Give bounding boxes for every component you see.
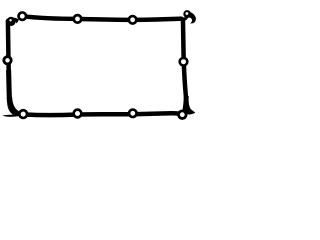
bolt hole bottom-left — [18, 109, 28, 119]
bolt hole bottom-right — [128, 108, 138, 118]
top-right scroll ornament — [183, 10, 191, 18]
bottom-left corner thick curve — [9, 97, 17, 114]
bolt hole top-right — [128, 15, 138, 25]
bolt hole top-left — [17, 11, 27, 21]
bolt hole bottom-middle — [72, 108, 82, 118]
bottom-right corner and pointed tail — [182, 96, 195, 114]
bolt hole top-middle — [72, 14, 82, 24]
top-right scroll notch — [186, 12, 189, 15]
top-right scroll tail — [187, 12, 196, 23]
bolt hole left — [2, 55, 12, 65]
bolt hole bottom-right corner — [177, 110, 187, 120]
left bar lower thicker section — [6, 70, 12, 102]
bolt hole right — [178, 57, 188, 67]
gasket perimeter outline — [8, 16, 186, 115]
top-left curl notch — [9, 19, 11, 21]
top-left curl ornament — [7, 17, 16, 26]
bottom-left pointed tail — [2, 114, 18, 117]
gasket illustration — [0, 0, 200, 133]
